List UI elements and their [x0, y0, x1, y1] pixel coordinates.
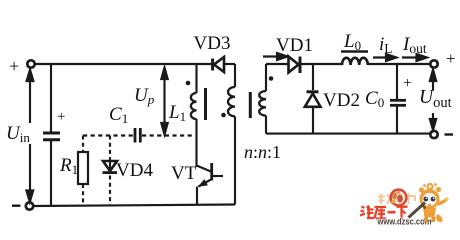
node - input terminal [26, 202, 33, 209]
polarity dot reset winding [221, 113, 226, 118]
diode VD4 [103, 136, 118, 206]
svg-text:VD4: VD4 [116, 160, 153, 181]
diode VD1 [289, 57, 343, 74]
svg-text:www.dzsc.com: www.dzsc.com [377, 217, 432, 227]
node + output terminal [430, 60, 437, 67]
current arrow iL [373, 54, 397, 61]
transistor VT [197, 163, 224, 206]
inductor L1 primary winding [191, 64, 197, 167]
diode VD2 [305, 64, 321, 134]
watermark faint character zhao [378, 194, 392, 205]
wire secondary bottom rail [266, 133, 431, 135]
svg-text:VD3: VD3 [194, 33, 231, 54]
capacitor C1 [135, 128, 140, 143]
capacitor input (unlabeled) [43, 64, 60, 206]
watermark mascot [409, 183, 449, 222]
label - output [445, 133, 454, 135]
svg-text:VT: VT [171, 163, 197, 184]
current arrow Iout [402, 54, 427, 61]
voltage arrow Uin [26, 70, 33, 203]
svg-text:VD2: VD2 [323, 90, 360, 111]
node - output terminal [430, 131, 437, 138]
wire bottom rail [33, 205, 235, 207]
inductor L0 [341, 52, 431, 66]
polarity dot secondary [269, 76, 274, 81]
svg-text:+: + [446, 49, 456, 68]
current arrow into VD1 [263, 53, 288, 60]
watermark red text weiku yixia [360, 206, 408, 220]
svg-text:n:n:1: n:n:1 [244, 142, 281, 162]
transformer core bar 1 [204, 88, 207, 120]
svg-text:VD1: VD1 [276, 35, 313, 56]
capacitor C0 [390, 64, 406, 134]
winding reset (demagnetizing) [228, 64, 235, 205]
resistor R1 [78, 136, 88, 206]
voltage arrow Uout [430, 70, 436, 131]
voltage arrow Up [161, 68, 167, 135]
svg-text:+: + [403, 75, 412, 92]
watermark red circle logo [391, 190, 407, 206]
watermark faint character pian [409, 193, 416, 204]
label - (input) [12, 204, 21, 206]
node + input terminal [27, 60, 34, 67]
winding secondary [259, 64, 266, 134]
wire top rail [34, 63, 212, 65]
wire dashed C1 to primary [142, 134, 195, 136]
polarity dot L1 [186, 81, 191, 86]
transformer core bar 2 [249, 92, 252, 118]
wire dashed snubber top [83, 134, 133, 136]
svg-text:+: + [57, 109, 65, 125]
diode VD3 [213, 57, 235, 72]
svg-text:+: + [9, 56, 19, 76]
wire secondary top [266, 63, 288, 65]
